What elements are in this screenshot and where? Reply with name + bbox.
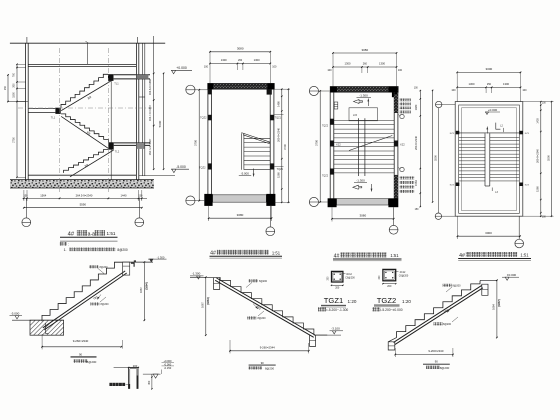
detail TB1: stair steps zigzag <box>42 262 123 321</box>
bottom flight soffit line and label <box>70 150 114 177</box>
svg-text:-5.000: -5.000 <box>176 165 186 169</box>
detail TB3: vertical dimension 1664 <box>492 280 502 339</box>
mezzanine plan stair treads <box>334 120 394 172</box>
pier label KZ2 on left wall mid <box>330 141 341 147</box>
section lower landing slab <box>114 143 150 149</box>
svg-text:250: 250 <box>487 83 492 86</box>
detail TB2: top level flag -1.300 <box>190 272 204 279</box>
mezzanine plan bottom-left corner column (black) <box>328 198 337 207</box>
ground plan top dimension 3000 <box>456 67 521 73</box>
detail TB3: bottom dimension 9x260=2340 <box>395 348 454 357</box>
svg-text:TQZ2: TQZ2 <box>322 174 329 177</box>
svg-text:9-260=2340: 9-260=2340 <box>73 339 89 343</box>
detail TB3: top landing line <box>480 279 497 281</box>
svg-text:260: 260 <box>363 63 368 66</box>
svg-text:-3.100: -3.100 <box>331 327 340 331</box>
basement plan stair break line (double) <box>241 133 270 144</box>
detail TB1: bottom dimension 9x260=2340 <box>41 334 122 349</box>
bottom stair flight steps <box>64 150 109 173</box>
grid bubble mezzanine plan top-left <box>309 86 330 95</box>
svg-text:-1.300: -1.300 <box>356 179 365 183</box>
basement plan bottom dimension 3080 <box>208 206 272 221</box>
column TGZ1 elevation note <box>318 307 348 312</box>
svg-text:TQZ1: TQZ1 <box>275 117 282 120</box>
svg-text:8@200: 8@200 <box>257 317 266 320</box>
svg-text:L15: L15 <box>353 114 358 117</box>
column TGZ2 title <box>374 296 411 307</box>
svg-text:100: 100 <box>272 66 277 69</box>
svg-text:-0.150: -0.150 <box>164 366 172 370</box>
svg-text:TQZ1: TQZ1 <box>277 168 284 171</box>
svg-text:260-9=2340: 260-9=2340 <box>276 127 280 141</box>
svg-text:90: 90 <box>79 353 82 357</box>
basement plan top dimension 1300/260/1300 <box>204 52 277 84</box>
svg-text:TQZ2: TQZ2 <box>200 117 207 120</box>
ground plan inner wall rectangle <box>459 105 520 213</box>
detail TB3: stair steps zigzag <box>397 281 481 338</box>
svg-text:1:20: 1:20 <box>402 299 411 304</box>
svg-text:300: 300 <box>13 83 16 88</box>
svg-text:1500: 1500 <box>13 92 16 98</box>
svg-text:TL2: TL2 <box>115 150 120 154</box>
wall pier on mezzanine left wall upper <box>322 119 334 128</box>
svg-text:(1664): (1664) <box>145 282 149 290</box>
curb detail: dimension 200 <box>114 364 139 368</box>
section centerline vertical left <box>59 48 61 192</box>
mezzanine plan left wall pilaster box <box>334 102 338 109</box>
basement plan bottom wall <box>213 195 267 202</box>
detail TB3: lowest tread approach <box>388 338 396 342</box>
svg-text:100: 100 <box>451 89 456 92</box>
svg-text:(1664): (1664) <box>206 297 210 305</box>
grid bubble ground plan left lower <box>435 213 455 219</box>
section right dimension 5600 <box>158 73 164 170</box>
detail TB1: top landing line <box>123 260 154 262</box>
mezzanine right wall shear segment lower (hatched) <box>394 175 398 199</box>
basement plan stair treads <box>241 133 270 170</box>
detail TB3: caption (rebar note) <box>423 359 450 370</box>
svg-text:4#: 4# <box>459 253 465 259</box>
mezzanine plan right dimension chain <box>414 88 438 211</box>
svg-text:-5.000: -5.000 <box>11 312 20 316</box>
basement plan top wall (hatched concrete) <box>208 83 275 89</box>
svg-text:100: 100 <box>522 89 527 92</box>
ground plan level +0.000 <box>485 108 500 115</box>
svg-text:1664: 1664 <box>492 304 496 310</box>
ground plan wall piers KZ3 at landing level <box>450 131 530 187</box>
column TGZ1 left dimension 200 <box>328 276 330 281</box>
svg-text:1:51: 1:51 <box>272 250 281 255</box>
svg-text:1300: 1300 <box>503 82 509 86</box>
grid bubble left below section <box>22 198 31 226</box>
svg-text:C6@200: C6@200 <box>399 274 409 277</box>
level mark -5.000 bottom right <box>139 165 189 176</box>
detail TB2: bottom run-out line <box>314 334 327 336</box>
detail TB2: bottom beam hook <box>310 335 316 346</box>
detail TB1: top level flag -1.300 <box>148 255 167 261</box>
svg-text:3700: 3700 <box>283 144 287 150</box>
rebar tag circle upper right wall plan3 <box>398 114 404 118</box>
detail TB2: top beam hook <box>214 278 220 290</box>
svg-text:8@200: 8@200 <box>440 366 450 370</box>
mezzanine plan top dimension 1300/260/1300 <box>327 53 402 87</box>
ground plan bottom dimension 3000 <box>457 216 521 239</box>
detail TB3: top rebar label <box>443 284 461 292</box>
middle stair flight steps <box>61 114 108 142</box>
svg-text:8@200: 8@200 <box>443 323 452 326</box>
svg-text:260-9=2340: 260-9=2340 <box>536 148 540 162</box>
column TGZ2 left dimension 200 <box>379 275 381 280</box>
detail TB1: stair waist slab (two lines) <box>43 271 127 330</box>
svg-text:1564: 1564 <box>414 180 418 186</box>
svg-text:4#: 4# <box>68 231 75 237</box>
grid bubble below basement plan right <box>266 206 275 236</box>
detail TB3: distribution rebar label <box>434 317 459 326</box>
rebar annotation block upper right <box>400 99 411 114</box>
svg-text:a-a: a-a <box>88 231 95 237</box>
upper flight soffit line and label B9 <box>61 81 111 111</box>
detail TB2: bottom level flag -3.100 <box>316 327 343 336</box>
section centerline horizontal mid landing <box>18 107 152 109</box>
section left dimension chain <box>4 64 28 179</box>
section partition line above slab <box>87 43 89 64</box>
basement plan left dimension line <box>194 89 200 201</box>
grid bubble mezzanine plan bottom-left <box>309 197 327 206</box>
detail TB2: caption (rebar note) <box>249 361 276 370</box>
mezzanine plan landing slab outline L15 <box>349 108 378 121</box>
mezzanine plan left dimension line <box>315 90 321 203</box>
beam TL1 top (black section) <box>108 74 119 85</box>
svg-text:1:20: 1:20 <box>348 299 357 304</box>
svg-text:1300: 1300 <box>379 62 385 66</box>
curb detail: vertical dimension 450 <box>148 374 153 389</box>
svg-text:1:51: 1:51 <box>390 253 399 258</box>
wall pier TQZ2 upper on left wall <box>200 115 212 121</box>
svg-text:3080: 3080 <box>237 213 244 217</box>
svg-text:4#: 4# <box>210 251 216 257</box>
svg-text:9-260=2340: 9-260=2340 <box>428 349 443 353</box>
section wall stub above roof line right <box>137 37 139 43</box>
mezzanine plan bottom-right corner column (black) <box>388 198 398 207</box>
detail TB1: top beam hook <box>123 262 134 275</box>
svg-text:1.: 1. <box>64 248 67 252</box>
section slab at +0.000 <box>28 64 136 66</box>
section mid landing slab left <box>28 108 55 112</box>
svg-text:100: 100 <box>204 66 209 69</box>
middle flight soffit line and label <box>61 116 109 149</box>
svg-text:TQZ2: TQZ2 <box>322 125 329 128</box>
svg-text:1300: 1300 <box>221 58 227 62</box>
svg-text:1:51: 1:51 <box>107 231 116 236</box>
section wall stub above roof line left <box>26 37 28 43</box>
svg-text:450: 450 <box>148 380 151 385</box>
mezzanine plan right wall <box>394 92 398 199</box>
ground plan landing edge line <box>459 132 520 134</box>
svg-text:5590: 5590 <box>80 203 87 207</box>
svg-text:8@200: 8@200 <box>452 285 461 288</box>
section bottom overall dimension 5590 <box>23 203 143 209</box>
section title 4# stair a-a section 1:51 <box>60 230 118 241</box>
section right wall <box>136 43 144 179</box>
mezzanine plan stair well double line <box>358 118 365 176</box>
detail TB2: top landing line <box>190 276 220 278</box>
basement plan title <box>210 250 283 258</box>
svg-text:150: 150 <box>138 194 143 197</box>
svg-text:1400: 1400 <box>537 118 540 124</box>
mezzanine plan bottom dimension 3080 <box>331 207 394 221</box>
svg-text:90: 90 <box>261 361 264 365</box>
svg-text:3080: 3080 <box>237 47 244 51</box>
ground plan top dimension 1300/250/1300 <box>451 72 527 101</box>
svg-text:1560: 1560 <box>276 172 280 178</box>
ground plan stair well (white out + outlines) <box>485 133 490 186</box>
mezzanine plan down arrow bottom <box>371 184 373 192</box>
svg-text:-1.300: -1.300 <box>192 272 201 276</box>
column TGZ1 title <box>321 296 357 307</box>
mezzanine plan top dimension 3080 <box>332 48 397 54</box>
basement plan top dimension 3080 <box>209 47 271 53</box>
mezzanine right wall shear segment upper (hatched) <box>394 94 398 113</box>
section right dimension chain inner <box>148 36 154 170</box>
svg-text:TQZ2: TQZ2 <box>199 166 206 169</box>
svg-text:3080: 3080 <box>359 214 366 218</box>
basement plan level label -5.000 <box>239 171 251 175</box>
grid bubble basement plan top-left <box>186 85 208 94</box>
detail TB2: bottom dimension 9x260=2344 <box>229 340 309 353</box>
svg-text:164.7-9=1667: 164.7-9=1667 <box>148 104 152 121</box>
wall pier TQZ2 lower on left wall <box>199 163 212 169</box>
mezzanine plan break line diagonal <box>349 136 392 151</box>
mezzanine level label -1.300 bottom <box>353 179 367 190</box>
level mark +0.000 top right <box>171 66 192 74</box>
basement plan right wall <box>270 89 274 194</box>
svg-text:5600: 5600 <box>158 120 162 127</box>
svg-text:1480: 1480 <box>276 101 280 107</box>
svg-text:164.6-9=1666: 164.6-9=1666 <box>148 78 152 95</box>
svg-text:TL1: TL1 <box>114 82 119 86</box>
svg-text:1440: 1440 <box>121 193 127 197</box>
column TGZ1 rebar labels <box>343 273 355 279</box>
svg-text:264.5-9=2340: 264.5-9=2340 <box>76 193 93 197</box>
svg-text:1667: 1667 <box>139 287 143 293</box>
svg-text:1300: 1300 <box>469 82 475 86</box>
svg-text:8@200: 8@200 <box>100 303 109 306</box>
svg-text:±0.000: ±0.000 <box>507 273 516 277</box>
svg-text:1300: 1300 <box>345 62 351 66</box>
svg-text:+0.000: +0.000 <box>488 108 498 112</box>
svg-text:9-260=2344: 9-260=2344 <box>260 345 275 349</box>
svg-text:3000: 3000 <box>486 67 493 71</box>
beam TL2 lower (black section) <box>108 142 119 153</box>
ground plan stair treads <box>459 137 520 181</box>
detail TB1: level mark -5.000 <box>10 312 23 319</box>
section mezzanine landing slab <box>114 75 150 79</box>
svg-text:150: 150 <box>23 194 28 197</box>
basement plan top wall corner columns (black) <box>208 83 275 94</box>
svg-text:1560: 1560 <box>536 186 540 192</box>
section stairwell edge vertical line <box>110 75 112 180</box>
svg-text:-1.300: -1.300 <box>359 93 368 97</box>
mezzanine plan up arrow <box>367 99 369 107</box>
detail TB1: slope label <box>92 294 101 300</box>
ground plan outer wall rectangle <box>455 102 523 217</box>
basement plan right dimension chain <box>274 89 290 204</box>
svg-text:260-9=2340: 260-9=2340 <box>414 135 418 149</box>
curb detail: embedded part label <box>109 383 128 386</box>
svg-text:KZ2: KZ2 <box>336 144 341 147</box>
ground plan up arrow and label L2 <box>486 123 503 134</box>
curb detail: level symbol and elevations <box>143 359 174 378</box>
svg-text:-1.300: -1.300 <box>157 255 165 259</box>
svg-text:8@200: 8@200 <box>99 266 108 269</box>
grid bubble right below section <box>135 198 144 226</box>
svg-text:TL1: TL1 <box>51 116 56 120</box>
detail TB2: stair steps zigzag <box>220 277 314 335</box>
svg-text:3080: 3080 <box>361 48 368 52</box>
grid bubble below mezzanine plan right <box>389 207 398 234</box>
svg-text:5500: 5500 <box>434 155 438 161</box>
section basement floor line <box>28 174 136 176</box>
svg-text:8@200: 8@200 <box>117 248 128 252</box>
column TGZ2 bottom dimension 200 <box>382 283 396 288</box>
detail TB3: bottom beam hook <box>388 342 395 350</box>
column TGZ2 elevation note <box>372 307 402 312</box>
section ground gravel hatch band <box>10 180 154 188</box>
svg-text:1564: 1564 <box>40 193 46 197</box>
column TGZ2 section square <box>383 269 396 280</box>
svg-text:100: 100 <box>327 69 332 72</box>
basement plan down arrow <box>253 169 255 177</box>
svg-text:4#: 4# <box>334 253 340 259</box>
mezzanine plan bottom wall <box>337 199 389 205</box>
svg-text:700: 700 <box>13 72 16 77</box>
svg-text:TGZ2: TGZ2 <box>377 296 396 305</box>
section centerline vertical right <box>107 48 109 192</box>
svg-text:KZ2: KZ2 <box>400 144 405 147</box>
detail TB3: stair waist slab (two lines) <box>394 286 483 345</box>
column TGZ1 section square <box>332 271 343 282</box>
svg-text:8@200: 8@200 <box>265 366 275 370</box>
svg-text:3700: 3700 <box>194 140 198 146</box>
detail TB2: top rebar label <box>246 279 268 287</box>
wall pier on mezzanine left wall lower <box>322 169 334 178</box>
detail TB2: vertical dimension 1667 left <box>200 277 210 336</box>
svg-text:TGZ1: TGZ1 <box>324 296 343 305</box>
svg-text:(1667): (1667) <box>497 299 501 307</box>
mezzanine plan title <box>333 253 402 261</box>
ground plan label L3 <box>492 188 498 194</box>
grid bubble ground plan left upper <box>436 101 456 107</box>
svg-text:5500: 5500 <box>546 155 550 161</box>
mezzanine level label -1.300 top <box>354 93 372 103</box>
svg-text:1667: 1667 <box>200 302 204 308</box>
rebar tag circle lower right wall plan3 <box>398 167 404 171</box>
stair section view a-a: top roof line <box>10 41 165 43</box>
detail TB2: stair waist slab (two lines) <box>215 278 315 337</box>
ground plan right dimension chain <box>523 101 554 219</box>
svg-text:150: 150 <box>4 85 7 90</box>
detail TB1: top rebar label <box>89 265 108 273</box>
svg-text:200: 200 <box>387 285 392 288</box>
mezzanine plan top wall (hatched concrete) <box>330 87 398 93</box>
svg-text:2750: 2750 <box>13 137 16 143</box>
svg-text:1300: 1300 <box>254 58 260 62</box>
detail TB1: foundation block hatched <box>30 320 64 335</box>
grid bubble below ground plan right <box>515 216 524 248</box>
detail TB1: distribution rebar label <box>90 297 109 306</box>
svg-text:100: 100 <box>398 69 403 72</box>
notes text under section title <box>60 242 128 252</box>
svg-text:3000: 3000 <box>485 231 492 235</box>
svg-text:260: 260 <box>238 59 243 62</box>
svg-text:C6@200: C6@200 <box>345 276 355 279</box>
grid line between plan3 and plan4 bubbles <box>438 108 440 213</box>
svg-text:1:51: 1:51 <box>520 253 529 258</box>
svg-text:-5.000: -5.000 <box>241 171 250 175</box>
svg-text:+0.000: +0.000 <box>176 66 187 70</box>
rebar annotation block lower right <box>400 177 415 193</box>
curb detail: U channel shape <box>128 368 138 389</box>
svg-text:200: 200 <box>335 287 340 290</box>
svg-text::: : <box>68 243 69 247</box>
grid bubble basement plan bottom-left <box>186 196 205 205</box>
basement plan left wall <box>208 89 212 194</box>
ground plan inner floor edge rectangle <box>462 108 517 211</box>
detail TB2: distribution rebar label <box>247 311 266 320</box>
detail TB1: caption (rebar note) <box>71 353 97 364</box>
svg-text:8@200: 8@200 <box>87 360 97 364</box>
svg-text:=-5.200~-1.300: =-5.200~-1.300 <box>326 308 349 312</box>
svg-text:=-5.200~±0.000: =-5.200~±0.000 <box>379 308 402 312</box>
wall pier TQZ1 lower on right wall <box>270 163 283 171</box>
pier label KZ2 mid right <box>394 141 405 147</box>
wall pier TQZ1 upper on right wall <box>270 115 281 121</box>
detail TB1: ground line <box>12 319 64 321</box>
mezzanine plan top wall end columns (black) <box>330 87 398 98</box>
detail TB2: slope label TB2 <box>253 304 262 311</box>
basement plan bottom-right corner column (black) <box>266 194 275 206</box>
beam TL1 mid-left (black section) <box>51 108 61 120</box>
basement plan bottom-left corner column (black) <box>204 194 212 206</box>
detail TB1: vertical dimension 1667 <box>139 261 149 321</box>
upper stair flight steps <box>61 74 108 107</box>
ground plan title <box>458 252 531 260</box>
svg-text:90: 90 <box>435 359 438 363</box>
column TGZ1 bottom dimension 200 <box>331 285 344 290</box>
detail TB1: anchor bar in foundation <box>46 323 49 334</box>
column TGZ2 rebar labels <box>396 271 409 277</box>
detail TB3: level flag +0.000 <box>502 273 519 280</box>
svg-text:164.7+9=1667: 164.7+9=1667 <box>148 138 152 155</box>
detail TB3: top beam hook <box>482 284 488 295</box>
section left wall <box>26 43 29 179</box>
svg-text:1480: 1480 <box>414 104 418 110</box>
mezzanine plan left wall <box>330 92 334 199</box>
detail TB3: slope label TB1 <box>443 308 451 315</box>
section bottom dimension chain <box>23 190 148 201</box>
svg-text:3700: 3700 <box>315 140 319 146</box>
svg-text:8@200: 8@200 <box>259 280 268 283</box>
